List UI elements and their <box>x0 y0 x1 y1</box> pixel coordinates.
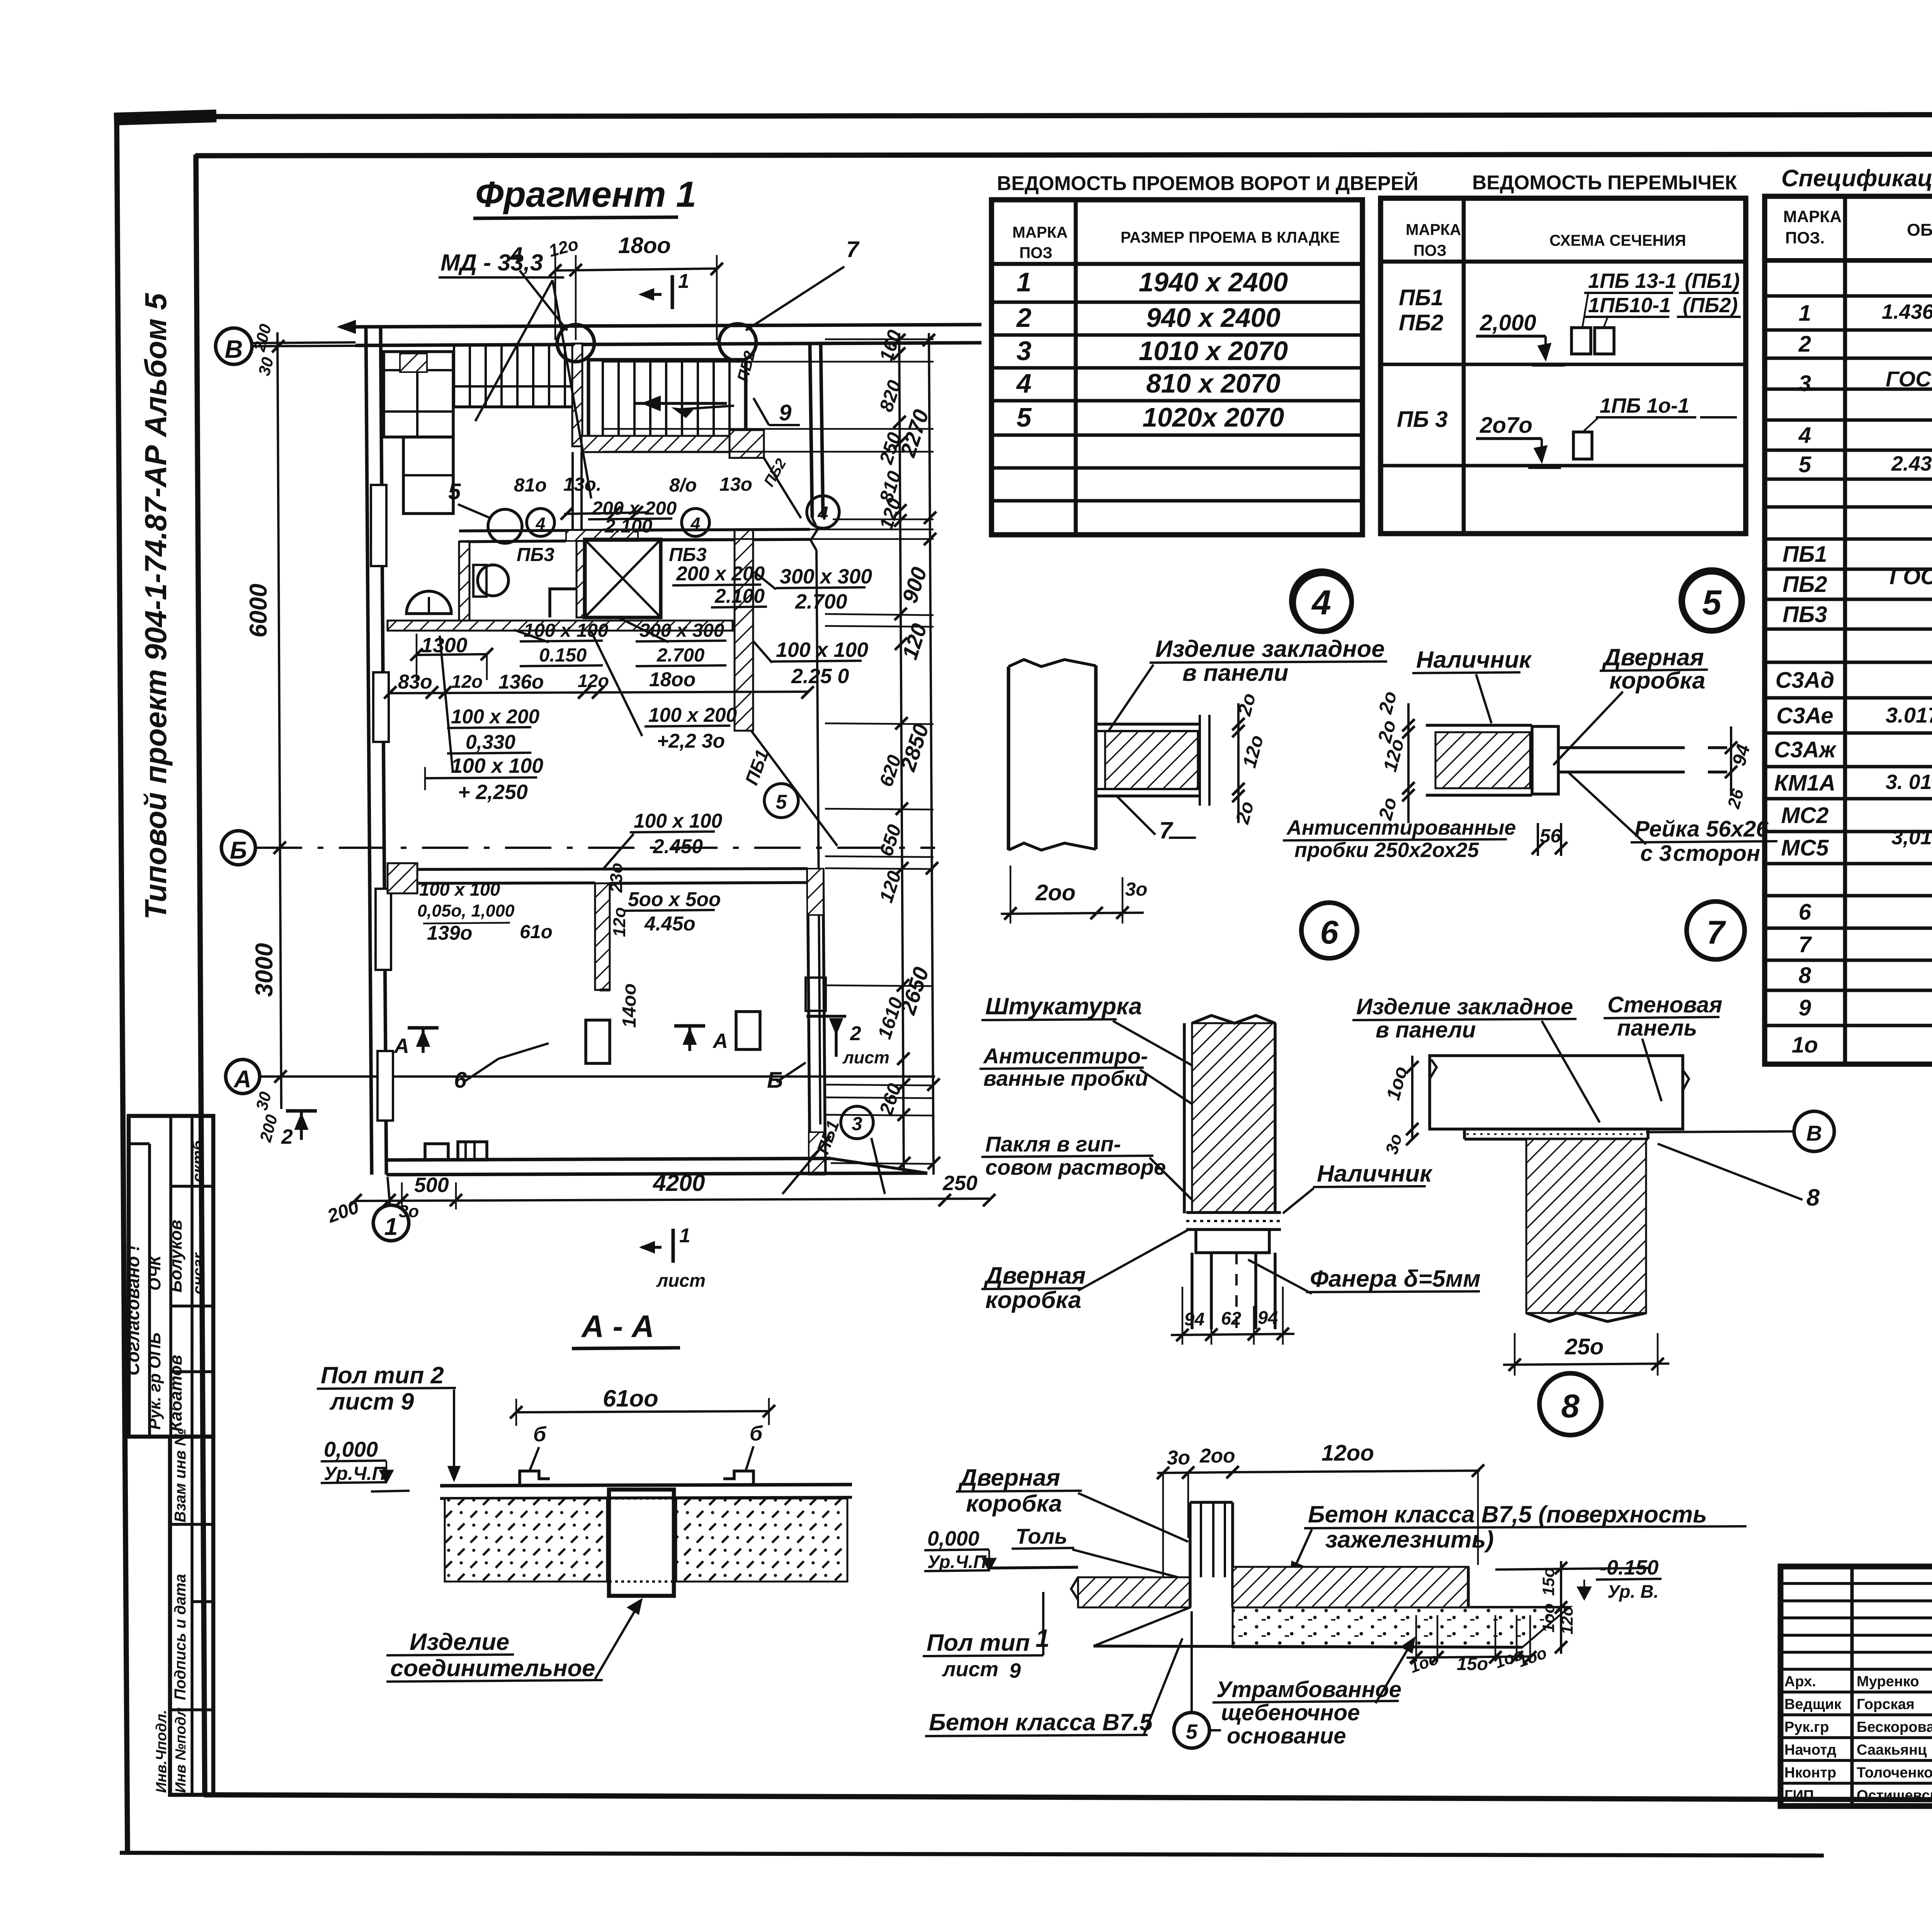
detail circle 4 <box>1291 571 1352 631</box>
svg-text:Стеновая: Стеновая <box>1607 992 1722 1017</box>
detail circle 4 (node) <box>1294 574 1352 632</box>
svg-text:0.150: 0.150 <box>539 645 587 666</box>
svg-text:3,017 - 1 , вып 2: 3,017 - 1 , вып 2 <box>1891 826 1932 849</box>
detail 7: lower wall hatched <box>1526 1139 1646 1313</box>
svg-text:Болуков: Болуков <box>166 1220 185 1293</box>
right wall break and thin continuation <box>811 518 818 550</box>
svg-text:2оо: 2оо <box>1199 1444 1235 1467</box>
svg-text:зажелезнить): зажелезнить) <box>1325 1526 1494 1553</box>
svg-text:12о: 12о <box>578 670 609 691</box>
svg-text:1: 1 <box>679 1224 690 1247</box>
A-A: floor slab <box>440 1485 852 1486</box>
svg-text:1ПБ10-1: 1ПБ10-1 <box>1588 294 1671 317</box>
svg-text:(ПБ1): (ПБ1) <box>1685 269 1740 293</box>
svg-text:5: 5 <box>1186 1720 1198 1743</box>
lower right wall <box>808 869 810 1175</box>
svg-text:+ 2,250: + 2,250 <box>458 781 528 804</box>
svg-text:14оо: 14оо <box>619 983 640 1028</box>
svg-text:2: 2 <box>850 1022 861 1044</box>
svg-text:18оо: 18оо <box>649 668 696 690</box>
svg-text:ВЕДОМОСТЬ ПРОЕМОВ ВОРОТ И: ВЕДОМОСТЬ ПРОЕМОВ ВОРОТ И ДВЕРЕЙ <box>997 172 1418 194</box>
d8: floor line left <box>991 1567 1078 1568</box>
svg-text:сктб: сктб <box>189 1139 207 1182</box>
svg-text:139о: 139о <box>427 922 472 944</box>
svg-text:100 х 100: 100 х 100 <box>776 638 868 662</box>
svg-text:61о: 61о <box>520 921 553 942</box>
detail circle 6 (node) <box>1301 903 1357 958</box>
detail 7: embed strip <box>1464 1128 1648 1131</box>
svg-text:300 х 300: 300 х 300 <box>639 620 724 641</box>
svg-text:Б: Б <box>230 837 247 864</box>
svg-text:94: 94 <box>1258 1307 1278 1328</box>
svg-text:ПБ2: ПБ2 <box>1782 572 1827 597</box>
left side stamp: взам/подпись/инв column <box>170 1437 213 1795</box>
A-A: dim 6100 <box>516 1411 769 1412</box>
svg-text:Арх.: Арх. <box>1784 1673 1816 1690</box>
d8: -0.150 level right <box>1495 1568 1650 1570</box>
svg-text:3: 3 <box>852 1113 862 1134</box>
svg-text:Типовой проект 904-1-74.: Типовой проект 904-1-74.87-АР Альбом 5 <box>139 293 173 920</box>
svg-text:С3Ае: С3Ае <box>1776 703 1833 728</box>
svg-text:Наличник: Наличник <box>1317 1160 1433 1187</box>
svg-text:Рейка 56х26: Рейка 56х26 <box>1634 816 1769 842</box>
svg-text:Ур.Ч.П.: Ур.Ч.П. <box>927 1551 992 1572</box>
svg-text:Фанера δ=5мм: Фанера δ=5мм <box>1310 1265 1481 1292</box>
svg-text:500: 500 <box>414 1173 449 1197</box>
svg-text:МАРКА: МАРКА <box>1783 207 1842 226</box>
svg-text:ПОЗ: ПОЗ <box>1413 241 1447 259</box>
svg-text:4: 4 <box>1311 583 1331 622</box>
svg-text:2: 2 <box>1016 303 1032 333</box>
d8: bottom small dims <box>1406 1656 1530 1658</box>
svg-text:1ПБ 13-1: 1ПБ 13-1 <box>1588 269 1677 293</box>
detail circle 5 <box>1681 570 1743 631</box>
svg-text:основание: основание <box>1227 1723 1346 1748</box>
dim chain 830 120 1360 120 1800 <box>390 692 808 693</box>
svg-text:Наличник: Наличник <box>1416 646 1532 673</box>
svg-text:0,05о, 1,000: 0,05о, 1,000 <box>417 901 515 920</box>
svg-text:МАРКА: МАРКА <box>1406 221 1461 238</box>
detail 6: wall vertical hatched <box>1192 1023 1275 1213</box>
svg-text:0,330: 0,330 <box>466 731 515 753</box>
stair landing hatched strip <box>582 436 750 452</box>
svg-text:18оо: 18оо <box>618 233 671 258</box>
plan: upper stair flight treads <box>453 344 455 407</box>
svg-text:4: 4 <box>1016 368 1032 398</box>
svg-text:1940 х 2400: 1940 х 2400 <box>1139 267 1288 297</box>
svg-text:Бетон класса В7,5 (поверхн: Бетон класса В7,5 (поверхность <box>1308 1501 1707 1528</box>
svg-text:Инв №подл: Инв №подл <box>173 1707 189 1793</box>
svg-text:лист: лист <box>942 1658 998 1681</box>
svg-text:1020х 2070: 1020х 2070 <box>1143 402 1284 432</box>
А section arrows <box>408 1026 439 1030</box>
svg-text:в панели: в панели <box>1376 1017 1476 1043</box>
svg-text:б: б <box>750 1422 763 1445</box>
sheet outer border <box>114 116 216 119</box>
svg-text:8: 8 <box>1799 963 1811 988</box>
svg-text:7: 7 <box>1706 914 1726 951</box>
svg-text:2: 2 <box>281 1125 293 1148</box>
svg-text:ПБ2: ПБ2 <box>1399 310 1444 335</box>
svg-text:Согласовано !: Согласовано ! <box>122 1245 143 1376</box>
door jamb L <box>550 589 577 617</box>
svg-text:Нконтр: Нконтр <box>1784 1765 1836 1781</box>
svg-text:12оо: 12оо <box>1321 1440 1374 1466</box>
svg-text:8: 8 <box>1561 1388 1580 1425</box>
svg-text:Ур. В.: Ур. В. <box>1607 1581 1659 1602</box>
detail 4: wall column <box>1007 667 1010 850</box>
title block outer <box>1781 1566 1932 1806</box>
svg-text:Дверная: Дверная <box>983 1262 1086 1289</box>
svg-text:коробка: коробка <box>985 1287 1081 1313</box>
axis line В <box>252 344 935 346</box>
svg-text:12о: 12о <box>1558 1606 1577 1634</box>
svg-text:6: 6 <box>1799 900 1811 925</box>
svg-text:4.45о: 4.45о <box>644 912 696 935</box>
svg-text:4: 4 <box>536 514 546 533</box>
svg-text:ПБ1: ПБ1 <box>1399 285 1444 310</box>
svg-text:2о7о: 2о7о <box>1480 413 1532 438</box>
svg-text:Рук. гр ОПБ: Рук. гр ОПБ <box>146 1332 164 1430</box>
svg-text:1010 х 2070: 1010 х 2070 <box>1139 336 1288 366</box>
svg-text:2: 2 <box>1798 332 1811 357</box>
ventilation shaft X-box <box>585 539 661 617</box>
svg-text:ОЧК: ОЧК <box>146 1255 164 1291</box>
svg-text:136о: 136о <box>498 670 544 693</box>
svg-text:Фрагмент 1: Фрагмент 1 <box>475 174 696 214</box>
plan: upper-left room block <box>384 352 453 437</box>
d8: gravel base dotted <box>1233 1607 1569 1647</box>
svg-text:ПОЗ.: ПОЗ. <box>1785 229 1825 247</box>
svg-text:5: 5 <box>1702 583 1722 622</box>
circled 4 at stair corner <box>807 496 839 528</box>
svg-text:ГИП: ГИП <box>1784 1787 1814 1804</box>
svg-text:4200: 4200 <box>653 1170 705 1196</box>
svg-text:Спецификация элемен: Спецификация элемен <box>1781 165 1932 192</box>
circled 4 + ПБ3 (right) <box>682 509 709 536</box>
svg-text:МАРКА: МАРКА <box>1012 223 1068 241</box>
svg-text:9: 9 <box>1799 995 1811 1020</box>
svg-text:Остишевский: Остишевский <box>1857 1787 1932 1804</box>
axis 1 vertical + circle 1 <box>388 1177 390 1205</box>
svg-text:13о: 13о <box>719 474 752 495</box>
svg-text:панель: панель <box>1617 1015 1697 1041</box>
plan: left exterior wall (panels) <box>366 327 372 1175</box>
svg-text:МД - 33,3: МД - 33,3 <box>440 249 543 276</box>
svg-text:12о: 12о <box>451 671 483 692</box>
svg-text:Толь: Толь <box>1015 1524 1067 1548</box>
svg-text:б: б <box>533 1423 547 1446</box>
svg-text:Изделие закладное: Изделие закладное <box>1356 994 1573 1019</box>
svg-text:Ведщик: Ведщик <box>1784 1696 1842 1713</box>
svg-text:300 х 300: 300 х 300 <box>780 565 872 588</box>
detail 6: bottom dims 94 62 94 <box>1182 1287 1184 1345</box>
A-A: connector block <box>609 1490 674 1596</box>
plan: left stair pier hatched <box>572 344 582 446</box>
svg-text:4: 4 <box>690 514 701 533</box>
svg-text:Бескоровайный: Бескоровайный <box>1857 1719 1932 1735</box>
svg-text:3о: 3о <box>1167 1446 1190 1469</box>
appliance right <box>736 1012 760 1049</box>
svg-text:-0.150: -0.150 <box>1600 1556 1659 1579</box>
svg-text:83о: 83о <box>398 670 432 693</box>
svg-text:1: 1 <box>1799 301 1811 326</box>
partition below Б <box>595 883 610 990</box>
circle 3 + ПБ1 bottom right <box>841 1106 873 1139</box>
svg-text:56: 56 <box>1540 825 1561 847</box>
svg-text:Бетон класса В7.5: Бетон класса В7.5 <box>929 1709 1153 1736</box>
svg-text:61оо: 61оо <box>603 1385 658 1412</box>
plan top dimensions <box>555 269 717 270</box>
svg-text:Пол тип: Пол тип <box>927 1629 1030 1656</box>
svg-text:7: 7 <box>1799 932 1812 957</box>
svg-text:100 х 200: 100 х 200 <box>451 705 540 728</box>
svg-text:Горская: Горская <box>1857 1696 1915 1713</box>
left side stamp: согласовано table <box>129 1116 213 1437</box>
detail 5: panel hatched + frame <box>1435 732 1530 788</box>
svg-text:Подпись и дата: Подпись и дата <box>171 1574 189 1700</box>
svg-text:Муренко: Муренко <box>1857 1673 1919 1690</box>
svg-text:Кабатов: Кабатов <box>166 1355 185 1432</box>
svg-text:МС2: МС2 <box>1781 803 1829 828</box>
svg-text:Саакьянц: Саакьянц <box>1857 1742 1927 1758</box>
d8: vertical dim chain right <box>1560 1561 1562 1654</box>
svg-text:5: 5 <box>1017 402 1032 432</box>
svg-text:щебеночное: щебеночное <box>1221 1700 1360 1725</box>
toilet <box>478 565 509 596</box>
svg-text:совом растворе: совом растворе <box>985 1155 1166 1179</box>
d8: circle 5 small <box>1174 1713 1209 1748</box>
detail circle 7 (node) <box>1687 901 1745 959</box>
detail circle 5 (node) <box>1683 572 1741 630</box>
axis circle В <box>216 328 252 364</box>
svg-text:100 х 100: 100 х 100 <box>634 810 723 832</box>
svg-text:2,000: 2,000 <box>1480 310 1536 335</box>
axis circle А <box>226 1060 260 1094</box>
detail circle 8 (node) <box>1539 1373 1601 1435</box>
svg-text:3000: 3000 <box>251 943 278 997</box>
svg-text:В: В <box>1806 1121 1822 1145</box>
d8: right concrete apron hatched <box>1233 1567 1468 1607</box>
svg-text:23о: 23о <box>607 863 626 893</box>
svg-text:+2,2 3о: +2,2 3о <box>657 730 725 752</box>
detail 7: dim 250 bottom <box>1514 1333 1516 1376</box>
svg-text:5: 5 <box>776 791 787 813</box>
detail 5: dim 94 right <box>1730 726 1732 796</box>
svg-text:25о: 25о <box>1565 1334 1604 1359</box>
plan: top exterior wall <box>340 325 981 327</box>
svg-text:Изделие: Изделие <box>410 1629 509 1655</box>
svg-text:А: А <box>393 1034 409 1058</box>
circled 5 right <box>764 784 798 818</box>
axis line Б <box>256 847 935 849</box>
svg-text:62: 62 <box>1221 1308 1241 1328</box>
svg-text:3: 3 <box>1799 371 1811 396</box>
svg-text:Антисептиро-: Антисептиро- <box>983 1044 1148 1068</box>
svg-text:ПБ1: ПБ1 <box>1782 542 1827 567</box>
wall embedded circles (columns 4 and 7) <box>557 325 594 362</box>
svg-text:2.700: 2.700 <box>795 590 847 613</box>
axis line А <box>260 1075 935 1078</box>
detail 5: dim 56 <box>1537 823 1539 856</box>
detail 7: В circle right <box>1646 1131 1793 1132</box>
svg-text:3о: 3о <box>1125 879 1148 900</box>
d8: door post <box>1189 1502 1192 1607</box>
svg-text:3. 017 - 1. вып. 5: 3. 017 - 1. вып. 5 <box>1886 770 1932 794</box>
svg-text:соединительное: соединительное <box>390 1655 595 1682</box>
svg-text:2оо: 2оо <box>1035 880 1076 905</box>
svg-text:ПБ3: ПБ3 <box>1782 602 1827 627</box>
svg-text:1ПБ 1о-1: 1ПБ 1о-1 <box>1600 394 1689 417</box>
svg-text:ГОСТ 948 - 84: ГОСТ 948 - 84 <box>1889 564 1932 589</box>
svg-text:2.700: 2.700 <box>656 645 704 666</box>
svg-text:200 х 200: 200 х 200 <box>676 562 765 585</box>
A-A: concrete band hatched <box>445 1498 607 1582</box>
svg-text:Утрамбованное: Утрамбованное <box>1216 1677 1401 1702</box>
svg-text:Антисептированные: Антисептированные <box>1286 816 1516 839</box>
svg-text:2.25 0: 2.25 0 <box>791 665 849 688</box>
svg-text:снcar: снcar <box>189 1252 207 1294</box>
svg-text:ПОЗ: ПОЗ <box>1019 244 1053 262</box>
plan: upper partition band <box>459 529 810 531</box>
svg-text:Взам инв №: Взам инв № <box>171 1428 189 1522</box>
svg-text:15о: 15о <box>1539 1568 1558 1596</box>
left vertical dimension line В-А <box>277 332 281 1109</box>
svg-text:Толоченко: Толоченко <box>1857 1765 1932 1781</box>
svg-text:9: 9 <box>779 400 792 425</box>
svg-text:100 х 100: 100 х 100 <box>419 879 500 900</box>
svg-text:Инв.Чподл.: Инв.Чподл. <box>153 1710 170 1793</box>
svg-text:МС5: МС5 <box>1781 835 1830 861</box>
svg-text:6000: 6000 <box>245 583 272 638</box>
detail 6: door box below <box>1196 1230 1269 1253</box>
svg-text:2.450: 2.450 <box>653 835 703 857</box>
svg-text:Пакля в гип-: Пакля в гип- <box>985 1132 1121 1156</box>
svg-text:РАЗМЕР ПРОЕМА В КЛАДКЕ: РАЗМЕР ПРОЕМА В КЛАДКЕ <box>1121 228 1340 246</box>
bottom-left door blocks <box>425 1144 448 1160</box>
door leaf lines <box>1558 746 1685 749</box>
plan: Б wall <box>388 863 417 893</box>
inner frame <box>195 154 1932 156</box>
svg-text:3: 3 <box>1017 336 1032 366</box>
svg-text:1: 1 <box>678 270 689 292</box>
bottom dim chain <box>355 1199 989 1201</box>
svg-text:А: А <box>233 1066 251 1093</box>
svg-text:100 х 200: 100 х 200 <box>648 704 737 726</box>
svg-text:0,000: 0,000 <box>324 1437 378 1461</box>
svg-text:7: 7 <box>1159 817 1173 844</box>
axis circle Б <box>221 831 255 865</box>
svg-text:8: 8 <box>1806 1184 1820 1211</box>
svg-text:Начотд: Начотд <box>1784 1742 1836 1758</box>
svg-text:КМ1А: КМ1А <box>1774 770 1836 796</box>
plan: long interior wall W1 <box>388 621 733 631</box>
svg-text:5оо х 5оо: 5оо х 5оо <box>628 888 721 910</box>
svg-text:940 х 2400: 940 х 2400 <box>1146 303 1281 333</box>
svg-text:лист: лист <box>656 1270 706 1291</box>
section mark 1 bottom <box>672 1229 675 1263</box>
svg-text:5: 5 <box>1799 452 1812 477</box>
svg-text:ПБ3: ПБ3 <box>517 544 554 565</box>
plan: right exterior wall upper <box>810 345 812 518</box>
section mark 1 top <box>671 275 674 309</box>
svg-text:Штукатурка: Штукатурка <box>985 993 1142 1020</box>
detail 4: dim 20/120/20 <box>1144 691 1260 692</box>
d8: left slab hatched <box>1078 1577 1190 1607</box>
svg-text:15о: 15о <box>1457 1653 1488 1674</box>
plan right dimension chains <box>899 333 904 1175</box>
wc vertical partition <box>459 542 469 621</box>
svg-text:9: 9 <box>1009 1659 1021 1682</box>
svg-text:С3Аж: С3Аж <box>1774 737 1837 762</box>
plan: inner pier ПБ1 <box>735 530 753 731</box>
detail 7: wall panel (plan) <box>1430 1056 1683 1129</box>
svg-text:810 х 2070: 810 х 2070 <box>1146 368 1281 398</box>
detail 4: bottom dims 200 30 <box>1001 913 1144 914</box>
svg-text:Дверная: Дверная <box>1602 644 1704 671</box>
svg-text:В: В <box>225 335 243 363</box>
svg-text:1: 1 <box>1017 267 1032 297</box>
svg-text:пробки 250х2ох25: пробки 250х2ох25 <box>1294 838 1480 862</box>
svg-text:5: 5 <box>448 479 461 504</box>
plan: bottom wall <box>386 1158 831 1160</box>
svg-text:А - А: А - А <box>581 1309 654 1344</box>
svg-text:Рук.гр: Рук.гр <box>1784 1719 1829 1735</box>
detail 5: dims left 20 120 20 <box>1407 703 1410 823</box>
svg-text:1о: 1о <box>1792 1032 1818 1058</box>
right chain extension lines <box>825 338 934 340</box>
svg-text:сторон: сторон <box>1673 841 1760 866</box>
svg-text:1.436.3 - 19, вып. 1: 1.436.3 - 19, вып. 1 <box>1882 300 1932 323</box>
svg-text:6: 6 <box>1320 914 1338 951</box>
svg-text:7: 7 <box>846 237 860 262</box>
svg-text:2.435 - 6, вып. 5: 2.435 - 6, вып. 5 <box>1891 452 1932 475</box>
svg-text:94: 94 <box>1184 1309 1204 1329</box>
svg-text:3.017 - 1 , вып. 1: 3.017 - 1 , вып. 1 <box>1886 703 1932 727</box>
svg-text:8/о: 8/о <box>669 474 697 496</box>
svg-text:ГОСТ 6629 - 74: ГОСТ 6629 - 74 <box>1886 367 1932 391</box>
stair direction arrow <box>634 402 727 405</box>
plan: stair right flight <box>588 360 746 437</box>
svg-text:коробка: коробка <box>966 1490 1062 1517</box>
svg-text:ВЕДОМОСТЬ ПЕРЕМЫЧЕК: ВЕДОМОСТЬ ПЕРЕМЫЧЕК <box>1472 171 1737 194</box>
2 лист marker right <box>806 1015 846 1018</box>
svg-text:Изделие закладное: Изделие закладное <box>1155 636 1384 662</box>
svg-text:1оо: 1оо <box>1539 1603 1558 1633</box>
svg-text:ОБОЗНАЧЕНИЕ: ОБОЗНАЧЕНИЕ <box>1907 220 1932 240</box>
svg-text:2.100: 2.100 <box>714 585 765 607</box>
2 section marker left <box>286 1109 317 1113</box>
svg-text:Дверная: Дверная <box>958 1464 1060 1491</box>
svg-text:4: 4 <box>1798 423 1811 448</box>
svg-text:1: 1 <box>384 1213 398 1240</box>
partition at door/X-box <box>577 541 586 617</box>
svg-text:81о: 81о <box>514 474 547 496</box>
svg-text:лист: лист <box>842 1048 889 1067</box>
svg-text:Пол тип 2: Пол тип 2 <box>321 1362 444 1389</box>
svg-text:С3Ад: С3Ад <box>1776 668 1835 693</box>
svg-text:ПБ 3: ПБ 3 <box>1397 407 1448 432</box>
svg-text:13о.: 13о. <box>563 474 602 495</box>
svg-text:0,000: 0,000 <box>927 1527 980 1550</box>
title block left grid <box>1781 1582 1932 1585</box>
circled 4 + ПБ3 (left) <box>527 509 554 536</box>
svg-text:4: 4 <box>817 503 828 524</box>
A-A: door sills (б) <box>520 1471 550 1486</box>
detail 4: panel with hatch <box>1105 731 1198 789</box>
svg-text:СХЕМА СЕЧЕНИЯ: СХЕМА СЕЧЕНИЯ <box>1549 231 1686 249</box>
svg-text:А: А <box>712 1029 728 1053</box>
